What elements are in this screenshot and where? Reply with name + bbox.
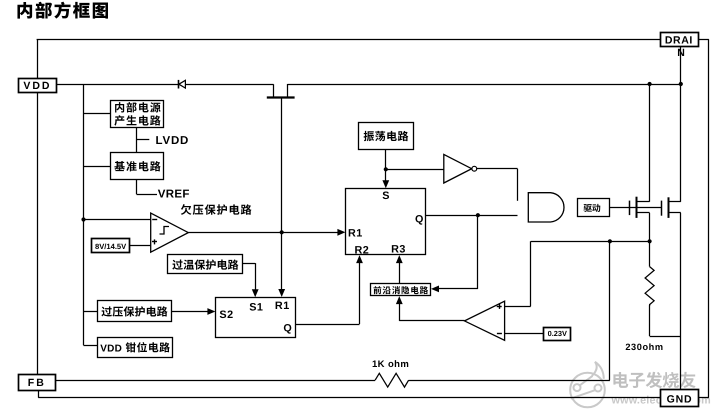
wire U5 output to LEB input: [399, 320, 464, 322]
box OTP 过温保护电路: [168, 255, 243, 274]
wire left frame vertical: [37, 39, 39, 374]
box reference 0.23V: [544, 328, 571, 341]
wire to UVLO comparator minus input: [84, 219, 151, 221]
wire VDD branch bus vertical: [83, 84, 85, 345]
node sense line / FB divider tap: [608, 239, 612, 243]
pin box GND: [661, 390, 699, 407]
box internal supply 内部电源产生电路: [111, 101, 164, 128]
wire VDD box to startup device: [56, 84, 274, 86]
inverter U4: [444, 154, 472, 183]
flip-flop U3 protection latch: [216, 298, 296, 338]
transistor Q2 main MOSFET: [661, 201, 663, 216]
wire FB box down to bottom frame: [38, 390, 40, 397]
and-gate U6: [528, 193, 564, 222]
wire top frame horizontal: [37, 39, 661, 41]
title 内部方框图: [17, 2, 32, 19]
wire to internal supply box: [84, 113, 111, 115]
svg-text:Q: Q: [283, 323, 291, 335]
wire Q2 source down to GND: [680, 213, 682, 390]
wire J1 gate down to comparator output node: [281, 97, 283, 290]
wire FB to 1K resistor: [55, 380, 375, 382]
wire UVLO output to latch U2 R1: [188, 232, 339, 234]
net LVDD: [136, 127, 138, 152]
op-amp U1 UVLO comparator: [151, 213, 189, 252]
net VREF: [136, 180, 138, 195]
wire Q2 drain up to DRAIN pin: [680, 47, 682, 202]
wire U5 minus to reference box: [505, 333, 544, 335]
box driver 驱动: [578, 199, 610, 217]
wire to VDD clamp box: [84, 345, 98, 347]
resistor R1 1K ohm: [375, 373, 409, 387]
svg-text:GND: GND: [667, 394, 693, 406]
wire threshold box to plus input: [130, 245, 151, 247]
wire resistor bottom to GND net: [649, 305, 651, 336]
pin box FB: [19, 375, 56, 391]
wire GND box to right frame corner: [698, 397, 709, 399]
node sense resistor top: [648, 239, 652, 243]
node Q1 drain rail junction: [648, 82, 652, 86]
node Q2 drain rail junction: [679, 82, 683, 86]
transistor J1 startup device: [273, 84, 275, 97]
wire to OVP box: [84, 311, 98, 313]
wire CS comparator out to LEB: [399, 302, 401, 321]
svg-text:LVDD: LVDD: [156, 135, 190, 147]
wire right frame vertical: [708, 39, 710, 397]
wire arrow into R1 of latch U2: [278, 289, 285, 297]
box OVP 过压保护电路: [98, 301, 172, 322]
svg-text:VDD: VDD: [100, 343, 122, 354]
wire OTP to S1 of latch U3: [243, 263, 255, 265]
wire U3 Q to U2 R2: [295, 324, 359, 326]
wire DRAIN box to right frame: [698, 39, 708, 41]
wire inverter output to AND gate: [477, 168, 518, 170]
wire to bandgap box: [84, 166, 111, 168]
box oscillator 振荡电路: [359, 123, 414, 150]
svg-text:S2: S2: [219, 309, 233, 321]
wire bottom frame horizontal: [38, 397, 661, 399]
op-amp U5 current sense comparator: [465, 301, 505, 340]
wire Q1 drain up to rail: [649, 84, 651, 202]
node UVLO sense tap: [81, 217, 85, 221]
svg-text:VREF: VREF: [158, 188, 190, 200]
node J1-gate / UVLO output junction: [280, 230, 284, 234]
svg-text:VDD: VDD: [23, 80, 51, 92]
svg-text:8V/14.5V: 8V/14.5V: [95, 242, 127, 251]
box LEB 前沿消隐电路: [371, 284, 431, 296]
svg-text:R1: R1: [348, 227, 363, 239]
svg-text:0.23V: 0.23V: [548, 329, 567, 338]
transistor Q1 sense MOSFET: [629, 201, 631, 216]
box threshold 8V/14.5V: [92, 239, 130, 253]
wire Q1 source down to sense resistor: [649, 213, 651, 267]
wire U2 Q output: [425, 215, 517, 217]
pin box VDD: [19, 79, 57, 93]
wire oscillator to S input and inverter: [385, 149, 387, 182]
flip-flop U2 PWM latch: [346, 189, 426, 255]
wire startup device to DRAIN rail: [287, 84, 680, 86]
node Q branch: [476, 213, 480, 217]
svg-text:S: S: [382, 190, 389, 202]
label 欠压保护电路: [181, 204, 192, 215]
svg-text:DRAI: DRAI: [665, 35, 693, 47]
wire OVP to S2 of latch U3: [171, 311, 209, 313]
pin box DRAIN: [661, 33, 699, 47]
svg-text:R2: R2: [354, 245, 369, 257]
wire U5 plus input to sense node: [505, 306, 531, 308]
svg-text:S1: S1: [249, 301, 263, 313]
watermark text 电子发烧友: [613, 372, 628, 388]
svg-text:230ohm: 230ohm: [625, 342, 663, 352]
box VDD clamp VDD钳位电路: [98, 338, 173, 358]
box bandgap 基准电路: [111, 153, 164, 180]
svg-text:Q: Q: [415, 214, 423, 226]
watermark logo circle: [570, 362, 605, 408]
wire 1K resistor to sense node: [409, 380, 610, 382]
svg-text:1K ohm: 1K ohm: [372, 359, 409, 370]
wire Q down to blanking box: [477, 215, 479, 289]
wire driver to gates: [609, 207, 661, 209]
svg-text:R3: R3: [391, 243, 406, 255]
resistor R2 230ohm: [645, 267, 654, 306]
svg-text:FB: FB: [28, 377, 46, 389]
diode D1 on VDD rail: [178, 80, 180, 89]
wire LEB to U2 R3: [399, 261, 401, 283]
svg-text:R1: R1: [275, 300, 290, 312]
